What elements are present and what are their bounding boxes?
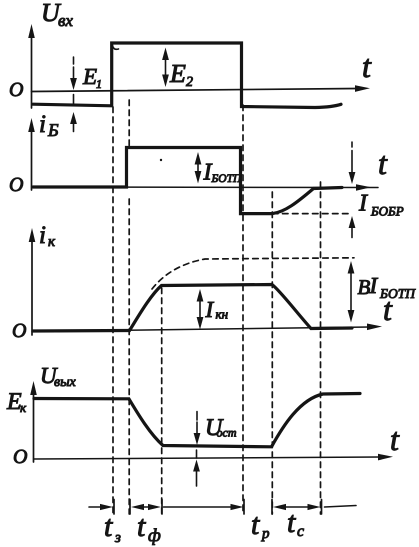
- svg-text:t: t: [251, 508, 260, 541]
- plot1 y-axis label Uvx: [41, 0, 73, 30]
- bottom interval arrow line segment left: [89, 504, 113, 510]
- plot1 E1 marker arrows: [70, 57, 77, 132]
- plot2 IБотп label: [203, 160, 242, 186]
- dashed vertical line at t=320: [320, 182, 322, 514]
- plot3 Iкн label: [205, 297, 229, 322]
- bottom interval ts segment: [273, 504, 321, 510]
- svg-text:с: с: [297, 523, 304, 540]
- plot3 Iкн marker arrow: [197, 289, 204, 330]
- plot4 Uост label: [205, 415, 237, 441]
- svg-text:I: I: [369, 273, 379, 298]
- svg-text:O: O: [13, 446, 27, 468]
- svg-text:E: E: [169, 59, 186, 88]
- bottom interval trailing line: [325, 506, 357, 508]
- svg-text:t: t: [390, 421, 400, 457]
- dashed vertical line at t=113: [112, 107, 114, 514]
- plot3 y-axis label iк: [39, 222, 56, 250]
- plot2 IБобр label: [358, 191, 404, 219]
- plot1 E2 label: [169, 59, 193, 90]
- svg-text:р: р: [261, 526, 270, 542]
- plot4 x-axis: [34, 454, 394, 461]
- svg-text:i: i: [39, 111, 46, 138]
- plot2 stray ink dot: [160, 159, 162, 161]
- svg-text:вх: вх: [58, 11, 73, 30]
- svg-text:к: к: [48, 234, 56, 250]
- plot1 E2 marker arrow: [162, 48, 169, 88]
- svg-text:к: к: [20, 400, 27, 415]
- label tf: [137, 510, 161, 545]
- plot4 Ek label: [6, 389, 27, 415]
- plot2 IБобр marker arrows: [349, 142, 356, 238]
- plot2 y-axis label iБ: [39, 111, 59, 140]
- label t3: [104, 510, 121, 546]
- svg-text:t: t: [378, 145, 388, 181]
- plot2 y-axis: [28, 118, 35, 190]
- svg-text:t: t: [137, 510, 146, 543]
- svg-text:t: t: [362, 48, 372, 84]
- plot1 E1 label: [82, 64, 102, 91]
- label tp: [251, 508, 270, 542]
- plot1 x-axis: [32, 85, 371, 92]
- svg-text:E: E: [82, 64, 97, 89]
- dashed vertical line at t=272: [271, 192, 273, 514]
- plot1 waveform corner curl: [113, 46, 119, 50]
- svg-text:I: I: [358, 191, 368, 217]
- svg-text:кн: кн: [216, 307, 229, 322]
- svg-text:t: t: [104, 510, 113, 543]
- svg-text:t: t: [287, 506, 296, 539]
- plot3 BIБотп marker arrow: [348, 261, 355, 323]
- svg-text:O: O: [12, 320, 26, 342]
- svg-text:БОТП: БОТП: [211, 173, 242, 185]
- svg-text:O: O: [9, 79, 23, 101]
- svg-text:1: 1: [96, 77, 102, 91]
- plot3 x-axis: [32, 324, 382, 332]
- bottom interval ticks: [114, 500, 322, 515]
- plot2 negative level dashed line: [273, 213, 349, 215]
- svg-text:O: O: [9, 174, 23, 196]
- svg-text:Б: Б: [47, 120, 59, 140]
- plot4 y-axis label Uвых: [40, 363, 77, 390]
- plot3 waveform: [33, 285, 352, 332]
- svg-text:2: 2: [186, 75, 193, 90]
- plot4 Uост marker arrows: [193, 412, 200, 487]
- svg-text:вых: вых: [54, 375, 77, 390]
- svg-text:БОТП: БОТП: [379, 286, 416, 301]
- plot2 x-axis: [32, 184, 379, 191]
- plot1 y-axis: [28, 24, 35, 108]
- plot3 dashed exponential asymptote: [152, 258, 354, 289]
- dashed vertical line at t=129 lower: [128, 199, 130, 514]
- plot4 y-axis: [30, 381, 37, 462]
- plot2 IБотп marker arrow: [195, 152, 202, 184]
- bottom interval arrow tf segment: [131, 504, 161, 510]
- svg-text:з: з: [114, 530, 121, 546]
- plot2 waveform: [33, 148, 342, 214]
- dashed vertical line at t=243: [242, 105, 244, 514]
- dashed vertical line at t=161: [161, 288, 163, 514]
- svg-text:i: i: [39, 222, 46, 249]
- svg-text:БОБР: БОБР: [370, 204, 404, 219]
- plot4 waveform: [34, 394, 360, 447]
- label tc: [287, 506, 304, 540]
- dashed vertical line at t=129 upper: [128, 100, 130, 146]
- svg-text:ост: ост: [217, 426, 237, 440]
- plot3 BIБотп label: [358, 273, 417, 301]
- bottom interval line to tp: [164, 504, 244, 510]
- svg-text:ф: ф: [148, 525, 161, 545]
- plot3 y-axis: [29, 228, 36, 335]
- plot1 waveform: [33, 43, 341, 108]
- svg-text:I: I: [205, 297, 215, 322]
